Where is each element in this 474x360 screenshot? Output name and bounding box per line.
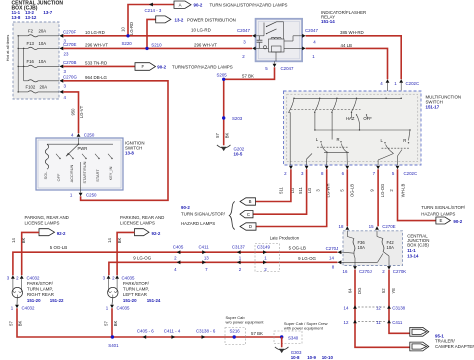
svg-text:C3138: C3138 bbox=[392, 306, 405, 311]
svg-text:C202C: C202C bbox=[404, 171, 418, 176]
svg-text:BK: BK bbox=[21, 238, 26, 244]
svg-text:C202C: C202C bbox=[406, 81, 420, 86]
svg-text:13-2: 13-2 bbox=[175, 17, 184, 22]
svg-text:BK: BK bbox=[117, 238, 122, 244]
svg-text:C270E: C270E bbox=[382, 224, 395, 229]
svg-text:TURN SIGNAL/STOP/HAZARD LAMPS: TURN SIGNAL/STOP/HAZARD LAMPS bbox=[210, 2, 288, 7]
svg-text:950: 950 bbox=[71, 108, 76, 116]
svg-text:TRAILER/: TRAILER/ bbox=[435, 339, 456, 344]
svg-text:START: START bbox=[95, 169, 100, 182]
svg-text:S401: S401 bbox=[108, 343, 119, 348]
svg-text:151-20: 151-20 bbox=[27, 298, 41, 303]
svg-text:52: 52 bbox=[381, 288, 386, 293]
svg-text:20A: 20A bbox=[40, 84, 48, 89]
svg-text:10-5: 10-5 bbox=[234, 151, 243, 156]
svg-text:151-20: 151-20 bbox=[123, 298, 137, 303]
svg-text:LICENSE LAMPS: LICENSE LAMPS bbox=[120, 221, 155, 226]
svg-text:KEY_IN: KEY_IN bbox=[108, 166, 113, 180]
svg-text:10A: 10A bbox=[39, 41, 47, 46]
svg-text:OG-LB: OG-LB bbox=[349, 184, 354, 197]
svg-text:C3149: C3149 bbox=[257, 244, 270, 249]
svg-text:13-8: 13-8 bbox=[125, 151, 134, 156]
svg-text:SOL: SOL bbox=[43, 171, 48, 180]
svg-text:C270J: C270J bbox=[326, 246, 339, 251]
svg-text:C411 - 4: C411 - 4 bbox=[164, 328, 181, 333]
svg-text:START/RUN: START/RUN bbox=[82, 161, 87, 183]
svg-text:POWER DISTRIBUTION: POWER DISTRIBUTION bbox=[187, 17, 236, 22]
svg-text:10A: 10A bbox=[387, 245, 395, 250]
svg-text:SWITCH: SWITCH bbox=[125, 145, 142, 150]
svg-text:5 OG-LB: 5 OG-LB bbox=[50, 245, 67, 250]
svg-text:LG: LG bbox=[307, 188, 312, 194]
svg-text:F13: F13 bbox=[27, 41, 35, 46]
svg-text:92-2: 92-2 bbox=[152, 231, 161, 236]
svg-text:57 BK: 57 BK bbox=[251, 331, 263, 336]
svg-text:12: 12 bbox=[344, 320, 349, 325]
svg-text:LG-VT: LG-VT bbox=[79, 105, 84, 118]
svg-text:533 TN-RD: 533 TN-RD bbox=[85, 61, 107, 66]
svg-text:C2047: C2047 bbox=[237, 28, 250, 33]
svg-text:57: 57 bbox=[8, 321, 13, 326]
svg-text:S205: S205 bbox=[217, 73, 228, 78]
svg-text:44 LB: 44 LB bbox=[341, 43, 353, 48]
svg-text:C4035: C4035 bbox=[117, 306, 130, 311]
svg-text:F: F bbox=[142, 64, 145, 69]
svg-text:TURN SIGNAL/STOP/: TURN SIGNAL/STOP/ bbox=[181, 212, 226, 217]
svg-text:F102: F102 bbox=[26, 84, 36, 89]
svg-text:95-1: 95-1 bbox=[435, 333, 444, 338]
svg-text:BK: BK bbox=[17, 321, 22, 327]
svg-text:R: R bbox=[337, 137, 340, 142]
svg-text:Late Production: Late Production bbox=[270, 235, 300, 240]
svg-text:13-7: 13-7 bbox=[43, 10, 52, 15]
svg-text:10-9: 10-9 bbox=[307, 355, 316, 360]
svg-text:C270G: C270G bbox=[63, 75, 77, 80]
svg-text:LEFT REAR: LEFT REAR bbox=[123, 292, 147, 297]
svg-text:B: B bbox=[249, 199, 252, 204]
svg-text:C4032: C4032 bbox=[27, 275, 40, 280]
svg-text:92-2: 92-2 bbox=[57, 231, 66, 236]
svg-text:14: 14 bbox=[107, 238, 112, 243]
svg-text:13-14: 13-14 bbox=[407, 253, 419, 258]
svg-text:10: 10 bbox=[120, 27, 125, 32]
svg-text:with power equipment: with power equipment bbox=[284, 325, 324, 330]
svg-text:C411: C411 bbox=[392, 320, 403, 325]
svg-text:13-8: 13-8 bbox=[12, 15, 21, 20]
svg-text:PARK/STOP/: PARK/STOP/ bbox=[27, 281, 54, 286]
svg-text:18: 18 bbox=[339, 224, 344, 229]
svg-text:S210: S210 bbox=[151, 42, 162, 47]
svg-text:15: 15 bbox=[369, 224, 374, 229]
svg-text:10A: 10A bbox=[39, 59, 47, 64]
svg-text:ACC/RUN: ACC/RUN bbox=[69, 164, 74, 182]
svg-text:RIGHT REAR: RIGHT REAR bbox=[27, 292, 54, 297]
svg-text:5 OG-LB: 5 OG-LB bbox=[289, 246, 306, 251]
svg-text:511: 511 bbox=[298, 186, 303, 193]
svg-text:57: 57 bbox=[215, 133, 220, 138]
svg-text:PARKING, REAR AND: PARKING, REAR AND bbox=[25, 215, 69, 220]
svg-text:LG-RD: LG-RD bbox=[129, 22, 134, 35]
svg-text:S340: S340 bbox=[288, 335, 299, 340]
svg-text:S203: S203 bbox=[232, 116, 243, 121]
svg-text:511: 511 bbox=[278, 186, 283, 193]
svg-text:C214 - 3: C214 - 3 bbox=[145, 8, 162, 13]
svg-text:90-2: 90-2 bbox=[181, 205, 190, 210]
svg-text:C270J: C270J bbox=[359, 269, 372, 274]
svg-text:9 LG-OG: 9 LG-OG bbox=[133, 256, 151, 261]
svg-text:WH-LB: WH-LB bbox=[401, 184, 406, 198]
svg-text:w/o power equipment: w/o power equipment bbox=[226, 320, 265, 325]
svg-text:CAMPER ADAPTER: CAMPER ADAPTER bbox=[435, 344, 474, 349]
svg-text:C2047: C2047 bbox=[281, 66, 294, 71]
svg-text:64: 64 bbox=[347, 288, 352, 293]
svg-text:C: C bbox=[247, 212, 250, 217]
svg-text:YE: YE bbox=[391, 288, 396, 294]
svg-text:C270F: C270F bbox=[63, 30, 76, 35]
svg-text:14: 14 bbox=[11, 238, 16, 243]
svg-text:C3137: C3137 bbox=[232, 244, 245, 249]
svg-text:11: 11 bbox=[376, 320, 381, 325]
svg-text:90-2: 90-2 bbox=[453, 219, 462, 224]
svg-text:10-8: 10-8 bbox=[291, 355, 300, 360]
svg-text:C405 - 6: C405 - 6 bbox=[137, 328, 154, 333]
svg-text:10-10: 10-10 bbox=[322, 355, 334, 360]
svg-text:BOX (CJB): BOX (CJB) bbox=[407, 243, 429, 248]
svg-text:20A: 20A bbox=[39, 28, 47, 33]
svg-text:D: D bbox=[249, 224, 252, 229]
svg-text:C270B: C270B bbox=[63, 60, 76, 65]
svg-text:LICENSE LAMPS: LICENSE LAMPS bbox=[25, 221, 60, 226]
svg-text:Hot at all times: Hot at all times bbox=[5, 35, 10, 61]
svg-text:HAZARD LAMPS: HAZARD LAMPS bbox=[421, 212, 455, 217]
svg-text:F16: F16 bbox=[27, 59, 35, 64]
svg-text:BK: BK bbox=[113, 321, 118, 327]
svg-text:296 WH-VT: 296 WH-VT bbox=[85, 43, 108, 48]
svg-text:151-14: 151-14 bbox=[321, 19, 335, 24]
svg-text:TURN LAMP,: TURN LAMP, bbox=[123, 287, 149, 292]
svg-text:C270E: C270E bbox=[63, 42, 76, 47]
svg-text:296 WH-VT: 296 WH-VT bbox=[194, 43, 217, 48]
svg-text:9 LG-OG: 9 LG-OG bbox=[298, 256, 316, 261]
svg-text:385 WH-RD: 385 WH-RD bbox=[340, 30, 364, 35]
svg-text:13-12: 13-12 bbox=[25, 15, 37, 20]
svg-text:OFF: OFF bbox=[56, 173, 61, 181]
svg-text:HAZ: HAZ bbox=[346, 116, 355, 121]
svg-text:C3138 - 6: C3138 - 6 bbox=[196, 328, 216, 333]
svg-text:151-24: 151-24 bbox=[147, 298, 161, 303]
svg-text:C2047: C2047 bbox=[305, 28, 318, 33]
svg-text:LG-OG: LG-OG bbox=[380, 184, 385, 198]
svg-text:14: 14 bbox=[344, 306, 349, 311]
svg-text:F2: F2 bbox=[28, 28, 34, 33]
svg-text:E: E bbox=[440, 218, 443, 223]
svg-text:10 LG-RD: 10 LG-RD bbox=[191, 28, 211, 33]
svg-text:C405: C405 bbox=[173, 244, 184, 249]
svg-text:A: A bbox=[179, 2, 182, 7]
svg-text:TURN/STOP/HAZARD LAMPS: TURN/STOP/HAZARD LAMPS bbox=[172, 64, 233, 69]
svg-text:C4032: C4032 bbox=[22, 306, 35, 311]
svg-text:PARKING, REAR AND: PARKING, REAR AND bbox=[120, 215, 164, 220]
svg-text:57 BK: 57 BK bbox=[242, 73, 254, 78]
svg-text:151-17: 151-17 bbox=[426, 104, 440, 109]
svg-text:13: 13 bbox=[204, 255, 209, 260]
svg-text:C4035: C4035 bbox=[122, 275, 135, 280]
svg-text:14: 14 bbox=[329, 255, 334, 260]
svg-text:PARK/STOP/: PARK/STOP/ bbox=[123, 281, 150, 286]
svg-text:BK: BK bbox=[225, 133, 230, 139]
svg-text:S220: S220 bbox=[122, 41, 133, 46]
svg-text:C411: C411 bbox=[199, 244, 210, 249]
svg-text:10 LG-RD: 10 LG-RD bbox=[85, 30, 105, 35]
svg-text:16: 16 bbox=[343, 269, 348, 274]
svg-text:OFF: OFF bbox=[363, 116, 372, 121]
svg-text:R: R bbox=[403, 138, 406, 143]
svg-text:HAZARD LAMPS: HAZARD LAMPS bbox=[181, 221, 215, 226]
svg-text:964 DB-LG: 964 DB-LG bbox=[85, 75, 108, 80]
svg-text:C250: C250 bbox=[84, 133, 95, 138]
svg-text:12: 12 bbox=[376, 306, 381, 311]
svg-text:151-22: 151-22 bbox=[50, 298, 64, 303]
svg-text:TURN LAMP,: TURN LAMP, bbox=[27, 287, 53, 292]
svg-text:23: 23 bbox=[64, 52, 69, 57]
svg-text:C270K: C270K bbox=[393, 269, 406, 274]
svg-text:TURN SIGNAL/STOP/: TURN SIGNAL/STOP/ bbox=[421, 205, 466, 210]
svg-text:10A: 10A bbox=[358, 245, 366, 250]
svg-text:57: 57 bbox=[103, 321, 108, 326]
svg-text:DG: DG bbox=[357, 288, 362, 294]
svg-text:PWR: PWR bbox=[78, 146, 88, 151]
svg-text:90-2: 90-2 bbox=[157, 64, 166, 69]
svg-text:S216: S216 bbox=[230, 329, 241, 334]
svg-text:C250: C250 bbox=[86, 192, 97, 197]
svg-text:90-2: 90-2 bbox=[194, 2, 203, 7]
